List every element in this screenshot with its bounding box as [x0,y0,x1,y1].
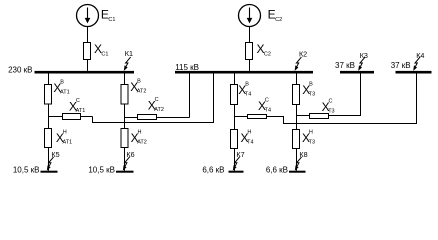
svg-text:С1: С1 [108,17,115,23]
svg-text:Т3: Т3 [328,108,334,114]
svg-text:АТ2: АТ2 [137,140,147,146]
svg-text:АТ2: АТ2 [137,89,147,95]
svg-text:Н: Н [63,130,67,136]
svg-text:Т3: Т3 [309,140,315,146]
svg-text:10,5 кВ: 10,5 кВ [88,165,115,174]
svg-text:230 кВ: 230 кВ [8,66,32,75]
svg-text:С: С [76,98,80,104]
svg-text:Т4: Т4 [247,140,253,146]
svg-text:6,6 кВ: 6,6 кВ [202,165,224,174]
svg-text:В: В [60,80,64,86]
svg-text:115 кВ: 115 кВ [175,63,199,72]
svg-text:К2: К2 [299,50,307,59]
svg-text:АТ1: АТ1 [63,140,73,146]
svg-text:В: В [137,79,141,85]
svg-text:К1: К1 [125,49,133,58]
svg-text:К7: К7 [236,150,244,159]
svg-text:Т3: Т3 [309,92,315,98]
svg-text:Н: Н [247,130,251,136]
svg-text:Н: Н [138,130,142,136]
svg-text:С2: С2 [275,17,282,23]
svg-text:Н: Н [309,130,313,136]
svg-text:С: С [155,97,159,103]
svg-text:Т4: Т4 [245,92,251,98]
svg-text:Т4: Т4 [265,108,271,114]
svg-text:С: С [265,98,269,104]
svg-text:АТ1: АТ1 [76,108,86,114]
svg-text:АТ2: АТ2 [154,107,164,113]
svg-text:АТ1: АТ1 [60,90,70,96]
svg-text:37 кВ: 37 кВ [391,61,411,70]
svg-text:С1: С1 [101,51,108,57]
svg-text:6,6 кВ: 6,6 кВ [266,165,288,174]
svg-text:К4: К4 [416,51,424,60]
svg-text:В: В [309,82,313,88]
svg-text:10,5 кВ: 10,5 кВ [13,165,40,174]
svg-text:К6: К6 [126,150,134,159]
svg-text:С2: С2 [264,51,271,57]
svg-text:37 кВ: 37 кВ [335,61,355,70]
svg-text:В: В [245,82,249,88]
svg-text:С: С [329,98,333,104]
